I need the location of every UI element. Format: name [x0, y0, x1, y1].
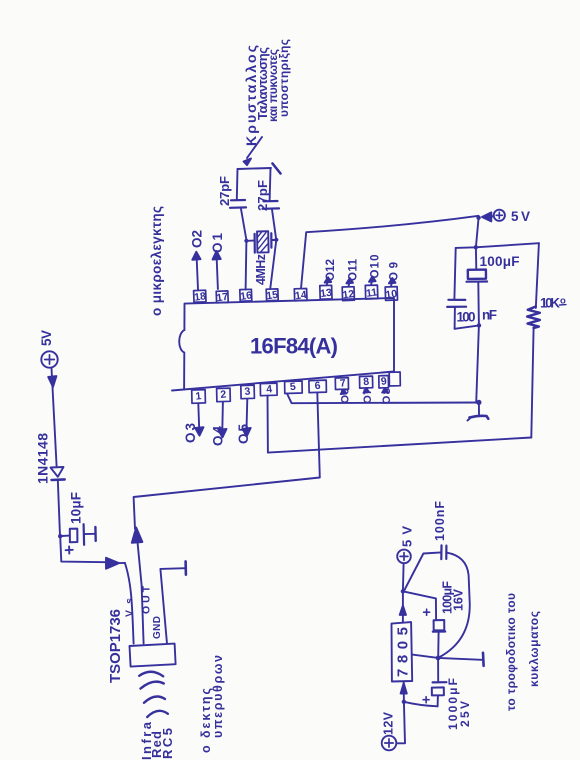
TSOP1736 receiver body	[130, 644, 176, 667]
ground symbol mid	[478, 402, 480, 414]
ground node dot psu	[436, 656, 441, 661]
svg-text:Vs: Vs	[124, 598, 136, 617]
wire 5V down with arrow	[52, 368, 57, 466]
svg-text:O4: O4	[211, 426, 226, 446]
svg-text:18: 18	[194, 290, 207, 304]
capacitor 1000uF 25V electrolytic	[437, 658, 439, 682]
wire top to C1	[236, 169, 239, 200]
wire left branch down to 100nF	[454, 248, 455, 299]
capacitor C3 10uF electrolytic	[62, 535, 70, 537]
svg-text:7805: 7805	[395, 627, 412, 677]
wire C1 to crystal node	[241, 209, 247, 241]
output O6 arrow pin7	[341, 390, 347, 395]
wire node to ground symbol psu	[438, 658, 482, 660]
svg-text:12: 12	[342, 288, 355, 302]
ground bar above crystal caps	[238, 168, 272, 169]
arrowhead into 5V	[482, 212, 491, 221]
svg-text:12V: 12V	[382, 711, 396, 735]
svg-text:nF: nF	[482, 308, 497, 323]
svg-text:14: 14	[294, 289, 307, 303]
supply symbol +12V	[382, 711, 397, 750]
svg-text:100nF: 100nF	[433, 501, 447, 541]
TSOP GND pin wire	[160, 568, 185, 644]
svg-text:O8: O8	[381, 388, 393, 404]
long bottom wire to pin4	[268, 438, 531, 453]
svg-text:O10: O10	[370, 255, 382, 279]
output O9 arrow pin10	[390, 283, 393, 286]
svg-text:17: 17	[216, 291, 229, 305]
svg-text:5V: 5V	[511, 209, 530, 224]
capacitor C2 27pF	[264, 200, 278, 203]
svg-text:7: 7	[339, 377, 346, 390]
bottom pin boxes 1..9	[192, 372, 401, 403]
svg-text:6: 6	[314, 380, 321, 393]
output O8 arrow pin9	[382, 388, 388, 393]
svg-text:15: 15	[266, 289, 279, 303]
svg-text:9: 9	[380, 375, 387, 388]
svg-text:13: 13	[319, 287, 332, 301]
svg-text:O1: O1	[210, 233, 225, 253]
junction dot ground	[476, 400, 481, 405]
annotation psu Greek text	[504, 593, 541, 711]
wire 100uF down	[477, 282, 480, 325]
wire 100nF down	[454, 308, 456, 329]
svg-text:5V: 5V	[39, 330, 54, 346]
top pin numbers	[194, 286, 399, 304]
wire pin14 to 5V rail	[301, 216, 479, 289]
svg-text:O6: O6	[340, 389, 352, 404]
svg-text:1N4148: 1N4148	[35, 433, 51, 484]
svg-text:O9: O9	[389, 262, 401, 281]
wire pin6 to TSOP OUT	[134, 393, 320, 529]
svg-text:5: 5	[289, 381, 296, 394]
bottom joining wire	[455, 325, 479, 328]
svg-text:O2: O2	[190, 230, 205, 248]
bottom pin numbers	[195, 375, 388, 402]
wire node down to cap junction	[476, 218, 479, 248]
supply symbol +5V psu	[397, 526, 414, 592]
svg-text:O5: O5	[236, 424, 251, 444]
svg-text:10μF: 10μF	[69, 492, 84, 524]
svg-text:27pF: 27pF	[255, 180, 270, 211]
svg-text:100: 100	[457, 310, 476, 325]
svg-text:O11: O11	[348, 258, 360, 281]
output O11 arrow pin12	[348, 283, 351, 286]
wire pin5 to ground junction	[287, 394, 479, 404]
svg-text:GND: GND	[152, 616, 163, 639]
svg-text:4MHz: 4MHz	[254, 254, 268, 285]
svg-text:κυκλωματος: κυκλωματος	[527, 611, 541, 687]
wire pin4 down	[267, 396, 269, 453]
svg-text:RC5: RC5	[160, 728, 175, 759]
capacitor 100uF 16V electrolytic	[403, 591, 436, 620]
svg-text:8: 8	[363, 376, 370, 389]
capacitor C1 27pF	[231, 199, 245, 202]
annotation Infra Red RC5	[139, 721, 175, 760]
supply symbol +5V left	[39, 330, 58, 368]
svg-text:16F84(A): 16F84(A)	[250, 334, 338, 359]
output O2 arrow from pin18	[197, 259, 198, 290]
svg-text:O3: O3	[183, 423, 198, 443]
output O3 arrow pin1	[197, 404, 200, 430]
supply symbol +5V right	[494, 209, 530, 224]
wire node down and right to TSOP Vs	[60, 536, 106, 562]
wire down to ground junction	[476, 325, 479, 402]
svg-text:2: 2	[220, 388, 227, 401]
capacitor 100nF psu	[440, 545, 442, 559]
svg-text:TSOP1736: TSOP1736	[107, 609, 124, 683]
svg-text:O12: O12	[325, 259, 337, 281]
svg-text:10: 10	[385, 288, 398, 302]
output O5 arrow pin3	[246, 399, 249, 430]
svg-text:27pF: 27pF	[217, 176, 232, 206]
svg-text:11: 11	[365, 286, 378, 299]
wire top to C2	[269, 169, 272, 201]
svg-text:ο μικροελεγκτης: ο μικροελεγκτης	[149, 206, 164, 316]
svg-text:100μF: 100μF	[480, 254, 520, 269]
top pin boxes 18..10	[194, 285, 398, 303]
svg-text:υποστηριξης: υποστηριξης	[277, 39, 291, 117]
regulator output wire with arrow	[402, 615, 404, 622]
IR waves	[139, 672, 163, 677]
output O1 arrow from pin17	[217, 259, 218, 289]
svg-text:OUT: OUT	[141, 585, 153, 614]
resistor R1 10K	[536, 243, 539, 308]
junction dot bottom	[477, 323, 481, 327]
node dot 5V rail	[476, 216, 480, 220]
IC U1 16F84 body	[172, 298, 394, 391]
svg-text:υπερυθρων: υπερυθρων	[211, 655, 225, 738]
junction dot	[474, 245, 478, 249]
svg-text:16: 16	[240, 289, 253, 303]
capacitor 100nF right	[448, 299, 465, 301]
diode D1 1N4148	[51, 467, 64, 477]
capacitor 100uF right electrolytic	[475, 247, 477, 269]
svg-text:4: 4	[266, 383, 273, 396]
node dot 10uF	[58, 534, 62, 538]
wire crystal to pin15	[270, 240, 276, 289]
wire crystal to pin16	[245, 241, 248, 290]
svg-text:το τροφοδοτικο του: το τροφοδοτικο του	[504, 593, 518, 711]
output O7 arrow pin8	[364, 388, 370, 393]
wire C2 to crystal node	[272, 210, 276, 240]
annotation: crystal note Greek text	[243, 39, 291, 146]
output O12 arrow pin13	[327, 282, 328, 285]
crystal X1 4MHz	[244, 231, 278, 285]
TSOP Vs pin wire	[125, 563, 134, 644]
output O4 arrow pin2	[221, 402, 224, 431]
svg-text:25V: 25V	[458, 701, 472, 727]
svg-text:5V: 5V	[400, 526, 415, 547]
regulator U2 7805	[392, 622, 413, 681]
wire R1 down to bottom loop	[531, 328, 533, 438]
wire 12V to regulator input	[396, 702, 405, 744]
svg-text:10K: 10K	[540, 296, 560, 311]
output O10 arrow pin11	[370, 282, 373, 285]
svg-text:1: 1	[195, 390, 202, 403]
svg-text:O7: O7	[362, 389, 374, 404]
horizontal wire to 10K branch	[456, 243, 539, 248]
svg-text:3: 3	[244, 385, 251, 398]
wire diode to node	[58, 480, 60, 536]
annotation o dektis yperythron	[199, 655, 225, 753]
svg-text:16V: 16V	[452, 588, 466, 611]
wire regulator gnd to node	[412, 655, 438, 658]
arrow from note to crystal	[247, 137, 262, 158]
